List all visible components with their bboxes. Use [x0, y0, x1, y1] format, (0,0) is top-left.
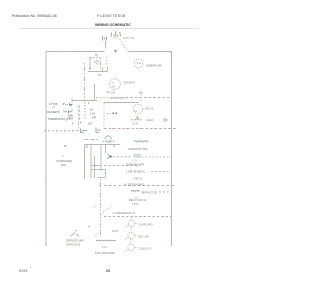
svg-text:4: 4	[88, 102, 90, 105]
dashed wire mid	[104, 165, 140, 167]
door switch	[103, 37, 107, 41]
svg-text:RE1 ( BA: RE1 ( BA	[139, 235, 150, 238]
svg-text:4 t 5: 4 t 5	[102, 246, 107, 249]
evap fan connector marks	[134, 155, 140, 157]
svg-text:WIRING SCHEMATIC: WIRING SCHEMATIC	[95, 23, 131, 27]
timer wire dashed upper	[85, 139, 99, 141]
svg-text:c9: c9	[112, 86, 115, 89]
heater bar under circle	[131, 117, 143, 120]
control box top	[104, 102, 139, 104]
relay circle	[128, 232, 134, 238]
evap fan dashed wire	[142, 156, 172, 158]
crossbars	[91, 165, 101, 167]
svg-text:10: 10	[78, 118, 81, 121]
corner rise	[107, 67, 109, 72]
svg-text:DEFROST 2O: DEFROST 2O	[141, 191, 157, 194]
capacitor plate mark	[112, 230, 119, 232]
compressor dashed wire	[104, 216, 172, 218]
top wire right segment	[128, 51, 172, 53]
overload circle	[128, 220, 134, 226]
left rail	[45, 52, 47, 245]
heater dashed wire	[159, 191, 172, 193]
svg-text:#F: #F	[64, 144, 67, 148]
connector plug glyph	[81, 129, 87, 133]
relay-start link	[130, 239, 132, 244]
svg-text:LIGHT SW: LIGHT SW	[123, 37, 135, 40]
B2 stub	[140, 95, 142, 103]
svg-text:4 TIMER 4: 4 TIMER 4	[103, 141, 116, 144]
rail magenta dash	[171, 60, 173, 62]
long vertical dashed to compressor	[100, 179, 102, 235]
connector ladder	[68, 102, 97, 126]
svg-text:1 DEFROST HTR: 1 DEFROST HTR	[128, 148, 148, 151]
wire magenta dashes right	[130, 51, 172, 54]
junction ticks	[87, 145, 114, 149]
svg-text:1t: 1t	[112, 82, 114, 85]
dotted rule	[20, 28, 200, 30]
svg-text:THERMOSTAT: THERMOSTAT	[48, 118, 65, 121]
ladder dashed vertical	[84, 102, 86, 120]
svg-text:( GRY )2: ( GRY )2	[133, 177, 143, 180]
heater squiggle 2	[131, 190, 140, 191]
row3 connector glyph	[66, 117, 73, 121]
right rail end tip	[171, 244, 173, 246]
sabbath indicator circle	[134, 59, 143, 68]
rail accents	[46, 95, 172, 235]
wire under switch box	[88, 71, 108, 73]
right rail	[171, 52, 173, 245]
svg-text:AIR DB HI: AIR DB HI	[124, 82, 136, 85]
defrost timer motor circle	[133, 104, 143, 114]
svg-text:RUN CAPACITOR: RUN CAPACITOR	[95, 252, 115, 255]
svg-text:2 LG: 2 LG	[90, 113, 95, 116]
long dashed wire	[104, 185, 176, 187]
svg-text:DEFROST LIMIT: DEFROST LIMIT	[66, 240, 85, 243]
svg-text:( 1 5: ( 1 5	[133, 160, 138, 162]
run capacitor plate	[96, 240, 116, 242]
svg-text:- .: - .	[76, 142, 78, 145]
svg-text:ADC Hi: ADC Hi	[145, 108, 154, 111]
svg-text:F: F	[62, 155, 64, 158]
svg-text:1 DEF BI-METAL: 1 DEF BI-METAL	[126, 171, 146, 174]
left rail end tip	[45, 244, 47, 246]
svg-text:1 1B1O5 1O: 1 1B1O5 1O	[138, 247, 152, 250]
svg-text:2: 2	[63, 110, 65, 112]
svg-text:B2t: B2t	[139, 91, 143, 95]
stray wire marks	[94, 205, 98, 209]
row2 connector glyph	[64, 110, 73, 113]
timer motor arc	[105, 136, 111, 139]
svg-text:1 COMPRESSOR 1O: 1 COMPRESSOR 1O	[112, 212, 135, 215]
dash-dot rule left	[44, 130, 78, 132]
light switch box	[90, 54, 101, 69]
svg-text:PP 2O1: PP 2O1	[107, 92, 116, 95]
dashed line to rail	[126, 97, 172, 99]
svg-text:FAN: FAN	[61, 164, 66, 167]
svg-text:EVAP FAN MTR: EVAP FAN MTR	[126, 164, 144, 167]
control box bottom long dashed	[104, 128, 176, 130]
svg-text:20: 20	[106, 269, 110, 273]
switch stub wire	[105, 41, 107, 49]
overload-relay link	[130, 227, 132, 232]
svg-text:11: 11	[78, 114, 81, 117]
compressor branch	[103, 207, 111, 213]
svg-text:SWITCH 120: SWITCH 120	[66, 244, 81, 247]
harness comb	[96, 97, 124, 98]
svg-text:( tm ): ( tm )	[134, 197, 139, 200]
footer dot	[30, 267, 31, 268]
wire magenta dashes	[58, 51, 104, 53]
svg-text:HI SIDE BK WHT: HI SIDE BK WHT	[125, 183, 145, 186]
svg-text:13: 13	[78, 106, 81, 109]
switch inner marks	[94, 60, 101, 65]
svg-text:t..: t..	[88, 133, 90, 136]
svg-text:12: 12	[78, 110, 81, 113]
freezer lamp	[111, 31, 120, 38]
vertical drops from timer wire	[84, 145, 86, 180]
svg-text:54T: 54T	[92, 117, 97, 120]
svg-text:5495: 5495	[19, 269, 28, 273]
svg-text:12V: 12V	[88, 123, 93, 126]
svg-text:1 PTC: 1 PTC	[132, 203, 139, 206]
control box inner contact dots	[113, 113, 118, 115]
contact dashed wire	[113, 156, 133, 158]
svg-text:4-DEF: 4-DEF	[146, 119, 154, 122]
svg-text:FL450ETES08: FL450ETES08	[97, 14, 125, 18]
svg-text:21-05: 21-05	[132, 124, 139, 126]
svg-text:5(M): 5(M)	[68, 115, 73, 118]
bus left tick	[71, 98, 73, 103]
defrost limit switch	[71, 233, 79, 237]
svg-text:tm: tm	[135, 110, 138, 113]
right column: defrost heater squiggle	[134, 141, 148, 142]
solid drop wire	[94, 85, 96, 101]
svg-text:5ABBATH 5W: 5ABBATH 5W	[146, 65, 162, 68]
lamp right leg	[120, 39, 128, 51]
arrow under lamp	[114, 50, 117, 53]
bus	[72, 100, 97, 102]
connector plug glyph 2	[96, 128, 101, 133]
bimetal dashed wire	[151, 171, 172, 173]
lower ladder dashes	[78, 124, 80, 131]
svg-text:CONDENSER: CONDENSER	[56, 160, 72, 163]
control box left	[103, 103, 105, 129]
svg-text:Publication No. 5995A52-06: Publication No. 5995A52-06	[12, 14, 57, 18]
svg-text:-|-: -|-	[71, 109, 73, 112]
top wire left segment	[46, 51, 104, 53]
svg-text:..: ..	[135, 108, 137, 110]
svg-text::: :	[84, 254, 85, 256]
svg-text:9: 9	[72, 123, 74, 126]
svg-text:OVERLOAD: OVERLOAD	[139, 223, 153, 226]
stub	[102, 68, 104, 72]
start device circle	[128, 244, 134, 250]
timer main wire	[85, 144, 121, 146]
dashed drop wire	[84, 63, 86, 101]
row1 connector glyph	[63, 103, 73, 106]
damper motor	[110, 79, 121, 90]
magenta mark	[98, 74, 101, 76]
svg-text:51-: 51-	[90, 109, 94, 112]
svg-text:2T: 2T	[52, 106, 55, 109]
svg-text:MAGNETIC: MAGNETIC	[47, 111, 60, 114]
defrost contact	[108, 154, 110, 159]
